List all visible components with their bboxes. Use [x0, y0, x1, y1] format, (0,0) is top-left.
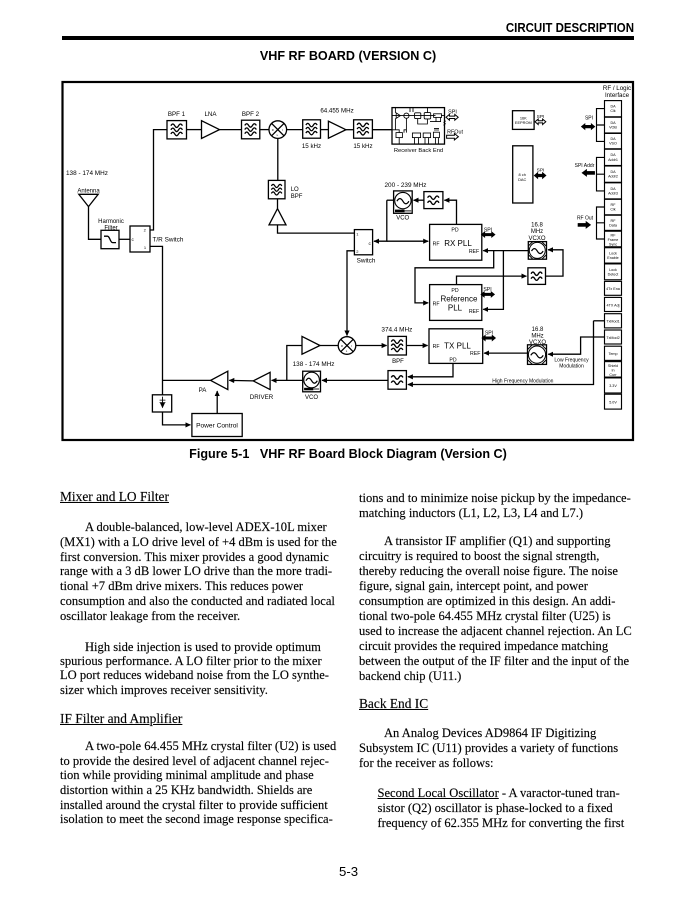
svg-text:High Frequency Modulation: High Frequency Modulation	[492, 379, 553, 385]
svg-text:DA: DA	[610, 153, 616, 157]
wire TX mixer to BPF 374.4	[356, 345, 387, 347]
svg-text:REF: REF	[469, 309, 479, 315]
svg-text:2: 2	[144, 228, 147, 233]
svg-text:TxMod1: TxMod1	[606, 320, 619, 324]
svg-text:TX PLL: TX PLL	[444, 341, 471, 350]
pin box 4TX Adj	[605, 297, 622, 311]
filter LO BPF	[268, 180, 285, 198]
svg-text:PLL: PLL	[448, 303, 463, 312]
svg-text:PD: PD	[449, 357, 456, 363]
wire T/R switch to BPF1 (receive riser)	[150, 130, 167, 230]
svg-text:Addr2: Addr2	[608, 175, 618, 179]
svg-text:Addr1: Addr1	[608, 158, 618, 162]
svg-text:RF: RF	[611, 203, 617, 207]
svg-text:64.455 MHz: 64.455 MHz	[320, 108, 353, 115]
svg-text:Switch: Switch	[357, 258, 376, 265]
svg-text:16.8: 16.8	[531, 223, 543, 229]
svg-text:R: R	[341, 344, 343, 348]
op-block TX PLL	[429, 329, 483, 364]
svg-text:Interface: Interface	[605, 92, 630, 99]
wire high frequency modulation riser to TxMod1	[594, 320, 605, 322]
svg-text:I: I	[351, 344, 352, 348]
wire VCXO branch to Reference PLL REF	[483, 251, 503, 310]
svg-text:PA: PA	[199, 387, 208, 394]
svg-text:3.3V: 3.3V	[609, 384, 617, 388]
svg-text:BPF 1: BPF 1	[168, 111, 186, 118]
svg-text:RF: RF	[611, 219, 617, 223]
filter reference loop filter	[528, 268, 546, 285]
memory EEPROM	[513, 111, 535, 130]
svg-text:R: R	[272, 128, 274, 132]
svg-text:Frame: Frame	[608, 238, 619, 242]
interface pin column	[575, 101, 622, 410]
wire amp to 15kHz filter 2	[346, 129, 354, 131]
op-block RX PLL	[430, 224, 482, 260]
svg-text:BPF 2: BPF 2	[242, 111, 260, 118]
pin box DA Clk	[605, 101, 622, 117]
svg-text:LNA: LNA	[204, 111, 217, 118]
page title	[62, 49, 634, 63]
pin box DA Addr2	[605, 166, 622, 182]
VCO U? 200-239 MHz	[394, 191, 413, 213]
DAC 8 channel	[513, 146, 533, 203]
wire BPF1 to LNA	[187, 129, 202, 131]
header rule	[62, 36, 634, 40]
svg-text:15 kHz: 15 kHz	[353, 143, 372, 150]
pin box Shield In Curr	[605, 362, 622, 378]
svg-text:Enable: Enable	[607, 256, 618, 260]
svg-text:I: I	[282, 128, 283, 132]
svg-text:Sync: Sync	[609, 242, 617, 246]
wire RX PLL PD to loop filter to VCO	[444, 200, 456, 224]
svg-text:DA: DA	[610, 105, 616, 109]
svg-text:5.0V: 5.0V	[609, 400, 617, 404]
svg-text:MHz: MHz	[531, 229, 543, 235]
svg-text:T/R Switch: T/R Switch	[153, 237, 184, 244]
svg-text:RF: RF	[433, 344, 440, 350]
mixer MX1	[269, 121, 287, 139]
RBE internal vertical wires	[406, 108, 440, 133]
svg-text:RF / Logic: RF / Logic	[603, 85, 631, 92]
svg-text:SPI Addr: SPI Addr	[575, 163, 595, 169]
wire VCO 138 to DRIVER	[272, 379, 303, 381]
left column text	[60, 490, 169, 504]
svg-text:REF: REF	[469, 249, 479, 255]
svg-text:Lock: Lock	[609, 251, 617, 255]
svg-text:Reference: Reference	[441, 294, 478, 303]
svg-text:DA: DA	[610, 187, 616, 191]
svg-text:Data: Data	[609, 223, 618, 227]
wire TX PLL PD to TX loop filter	[408, 363, 453, 376]
block Receiver Back End U11	[392, 108, 445, 145]
filter TX loop filter	[388, 371, 406, 390]
pin box TxMod2	[605, 330, 622, 344]
filter BPF 374.4 MHz	[388, 336, 406, 355]
svg-text:BPF: BPF	[291, 194, 303, 200]
RBE internal mixer	[404, 113, 409, 118]
wire detector to power control	[163, 412, 191, 425]
wire VCXO (TX) to TX PLL REF	[484, 352, 527, 354]
RBE internal block 1	[415, 113, 421, 119]
pin box DA VSO	[605, 133, 622, 148]
wire LNA to BPF2	[220, 129, 242, 131]
wire LO BPF to LO amp	[277, 199, 279, 209]
wire harmonic filter to T/R switch	[119, 238, 130, 240]
svg-text:BPF: BPF	[392, 359, 404, 365]
svg-text:VOB: VOB	[609, 126, 617, 130]
svg-text:DA: DA	[610, 170, 616, 174]
wire antenna to harmonic filter	[89, 207, 102, 240]
RBE internal amp	[396, 113, 400, 118]
svg-text:4Tx Ena: 4Tx Ena	[606, 287, 621, 291]
mixer TX offset mixer	[338, 337, 356, 355]
svg-text:L: L	[277, 133, 279, 137]
pin box Temp	[605, 346, 622, 360]
svg-text:c: c	[369, 242, 372, 247]
T/R switch	[130, 226, 150, 252]
svg-text:Addr3: Addr3	[608, 191, 618, 195]
svg-text:Receiver Back End: Receiver Back End	[394, 148, 443, 154]
svg-text:16.8: 16.8	[532, 327, 544, 333]
svg-text:4TX Adj: 4TX Adj	[607, 303, 620, 307]
svg-text:1: 1	[356, 231, 359, 236]
power detector	[152, 395, 171, 412]
amplifier DRIVER	[253, 372, 270, 389]
wire BPF2 to mixer MX1	[260, 129, 269, 131]
SPI bracket for DA Clk/VOB/VSO	[597, 109, 605, 142]
wire TX buffer to mixer	[320, 345, 338, 347]
svg-text:DA: DA	[610, 137, 616, 141]
svg-text:138 - 174 MHz: 138 - 174 MHz	[293, 361, 335, 368]
svg-text:15 kHz: 15 kHz	[302, 143, 321, 150]
pin box DA VOB	[605, 117, 622, 133]
svg-text:Clk: Clk	[610, 109, 615, 113]
pin box 4Tx Ena	[605, 281, 622, 295]
svg-text:RF: RF	[433, 241, 440, 247]
figure caption	[62, 447, 634, 461]
wire BPF 374.4 to TX PLL RF	[406, 345, 427, 347]
amplifier PA	[211, 371, 228, 389]
svg-text:374.4 MHz: 374.4 MHz	[381, 327, 412, 334]
wire Reference PLL PD to loop filter	[457, 276, 527, 285]
pin box TxMod1	[605, 314, 622, 328]
RBE internal block 2	[424, 113, 431, 119]
pin box DA Addr3	[605, 183, 622, 199]
op-block Reference PLL	[430, 285, 482, 321]
RF Out bracket for RF Clk/Data/Frame Sync	[597, 207, 605, 239]
header: CIRCUIT DESCRIPTION	[373, 20, 634, 35]
RBE internal bottom block 2	[412, 133, 420, 138]
svg-text:Curr: Curr	[609, 373, 617, 377]
svg-text:MHz: MHz	[531, 333, 543, 339]
wire mixer to 15kHz filter 1	[287, 129, 303, 131]
svg-text:Clk: Clk	[610, 208, 615, 212]
svg-text:RF: RF	[611, 234, 617, 238]
filter 15 kHz crystal filter U2	[303, 120, 321, 138]
diagram outer frame	[63, 82, 634, 440]
svg-text:138 - 174 MHz: 138 - 174 MHz	[66, 170, 108, 177]
svg-text:REF: REF	[470, 351, 480, 357]
wire PA to T/R riser	[163, 379, 211, 381]
svg-text:2: 2	[356, 249, 359, 254]
svg-text:PD: PD	[451, 288, 458, 294]
svg-text:Lock: Lock	[609, 268, 617, 272]
wire mixer MX1 to LO BPF	[277, 138, 279, 180]
RBE internal bottom block 3	[423, 133, 430, 138]
RBE internal wire top	[392, 115, 445, 117]
amplifier LO buffer	[269, 209, 286, 225]
RBE right-edge pin marks	[444, 121, 446, 126]
wire VCO 200 output to switch and RX PLL	[374, 200, 387, 241]
amplifier TX buffer	[302, 336, 320, 354]
wire TX loop filter to VCO 138 control	[322, 379, 388, 381]
pin box Lock Enable	[605, 248, 622, 263]
svg-text:Power Control: Power Control	[196, 423, 238, 430]
RBE internal block 3	[434, 114, 442, 118]
pin box DA Addr1	[605, 149, 622, 165]
wire to IF amp Q1	[321, 129, 329, 131]
pin box 5.0V	[605, 394, 622, 409]
page number	[339, 864, 358, 879]
block Power Control	[192, 414, 242, 437]
svg-text:VCO: VCO	[305, 395, 318, 401]
svg-text:VCO: VCO	[396, 216, 409, 222]
svg-text:L: L	[346, 349, 348, 353]
svg-text:DAC: DAC	[518, 177, 526, 182]
wire VCXO branch to Reference PLL RF	[415, 251, 494, 303]
wire VCO 138 branch up to TX buffer	[287, 346, 302, 381]
LO switch	[354, 230, 372, 255]
svg-text:Temp: Temp	[608, 352, 617, 356]
svg-text:RX PLL: RX PLL	[444, 239, 472, 248]
svg-text:1: 1	[144, 245, 147, 250]
svg-text:DA: DA	[610, 121, 616, 125]
pin box RF Clk	[605, 199, 622, 215]
RBE internal bottom block 1	[396, 133, 402, 138]
wire high frequency modulation to TX loop filter	[408, 321, 594, 385]
svg-text:RF Out: RF Out	[577, 216, 594, 222]
svg-text:Shield: Shield	[608, 364, 618, 368]
oscillator VCXO 16.8 MHz (TX)	[528, 345, 547, 365]
svg-text:Detect: Detect	[608, 272, 619, 276]
wire power control to PA bias	[216, 391, 218, 413]
svg-text:In: In	[611, 368, 614, 372]
RBE internal bottom block 4	[433, 132, 439, 137]
svg-text:Modulation: Modulation	[559, 363, 584, 369]
svg-text:VSO: VSO	[609, 142, 617, 146]
RBE internal left rail	[395, 108, 406, 133]
filter RX loop filter	[424, 192, 443, 209]
oscillator VCXO 16.8 MHz (RX)	[528, 242, 546, 260]
svg-text:DRIVER: DRIVER	[250, 394, 274, 401]
pin box 3.3V	[605, 378, 622, 393]
wire ref loop filter to VCXO control	[546, 250, 564, 276]
SPI Addr bracket for DA Addr1-3	[597, 157, 605, 191]
svg-text:TxMod2: TxMod2	[606, 336, 619, 340]
RBE internal input wire	[392, 130, 399, 133]
wire filter to receiver back end	[372, 129, 392, 131]
svg-text:LO: LO	[291, 187, 299, 193]
pin box Lock Detect	[605, 264, 622, 280]
svg-text:EEPROM: EEPROM	[515, 120, 532, 125]
svg-text:200 - 239 MHz: 200 - 239 MHz	[385, 182, 427, 189]
VCO 138-174 MHz	[303, 371, 321, 392]
svg-text:SPI: SPI	[585, 116, 593, 122]
pin box RF Frame Sync	[605, 231, 622, 247]
svg-text:PD: PD	[451, 228, 458, 234]
right column text	[359, 492, 631, 506]
svg-text:c: c	[132, 238, 135, 243]
wire LO switch to TX mixer	[347, 251, 354, 336]
wire DRIVER to PA	[229, 379, 253, 382]
svg-text:RF: RF	[433, 302, 440, 308]
wire VCXO to RX PLL REF	[483, 250, 528, 252]
wire LO amp to LO switch	[278, 225, 355, 233]
svg-text:Harmonic: Harmonic	[98, 219, 124, 225]
svg-text:VCXO: VCXO	[528, 236, 545, 242]
pin box RF Data	[605, 215, 622, 230]
filter 15 kHz crystal filter U25	[354, 120, 373, 138]
wire low frequency modulation TxMod2 to VCXO (TX)	[548, 337, 604, 354]
wire T/R switch down to PA line (transmit riser)	[150, 246, 163, 394]
